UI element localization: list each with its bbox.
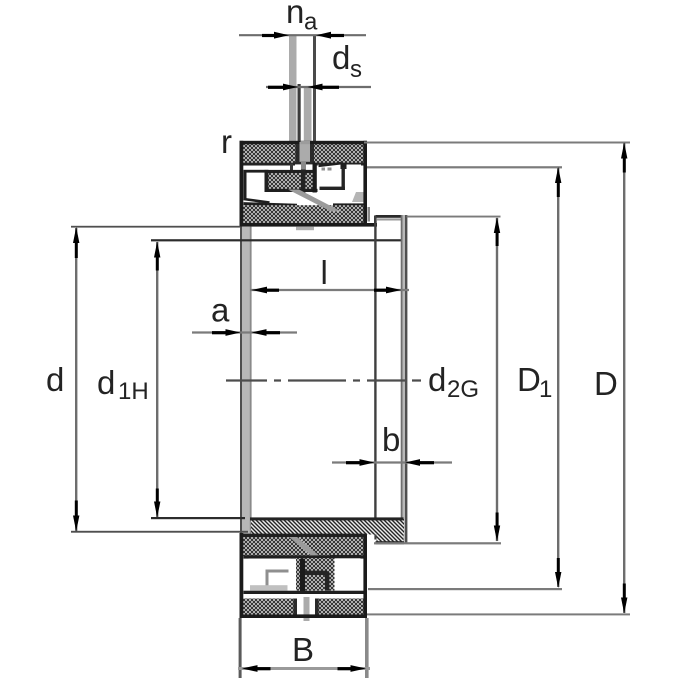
svg-text:d: d [428, 361, 446, 398]
sleeve protrusion bottom line [376, 541, 405, 544]
cage right vertical line (bottom) [325, 572, 330, 591]
cage mid horizontal line (bottom) [305, 571, 327, 576]
a left arrow [226, 329, 241, 336]
extension D bottom [367, 613, 630, 615]
outer ring top edge [240, 141, 368, 144]
cage center oil passage dark line [301, 170, 306, 193]
left roller end-face gray lines [266, 570, 289, 573]
block right edge (top section) [363, 141, 367, 225]
outer ring hatched (top) [242, 143, 364, 165]
step white notch [367, 535, 374, 543]
left roller top edge [244, 170, 269, 173]
outer ring hatched (bottom) [242, 599, 364, 616]
svg-text:s: s [350, 56, 362, 83]
d2G top arrow [494, 217, 500, 233]
bottom outer ring bottom edge [240, 614, 368, 618]
extension line d bottom [71, 531, 248, 533]
inner ring band hatched (bottom) [242, 537, 364, 556]
oil groove white slot [295, 164, 315, 170]
svg-text:n: n [286, 0, 304, 30]
extension D1 bottom [368, 588, 562, 590]
right roller end-face horizontal line [320, 187, 345, 190]
raceway white strip [244, 166, 364, 171]
dimension D line [623, 143, 625, 613]
extension D top [364, 142, 630, 144]
inner duct gray strip [304, 87, 312, 142]
sleeve band hatched (bottom) [251, 519, 404, 535]
B right arrow [351, 665, 367, 672]
svg-text:d: d [97, 364, 115, 401]
left roller white body (bottom) [249, 559, 291, 591]
duct wall dark line right [313, 36, 316, 142]
right roller white body (bottom) [335, 558, 361, 592]
sleeve slit gray swath [288, 190, 342, 212]
cage top edge [265, 170, 317, 173]
oil hole white slot (bottom) [297, 597, 315, 615]
dimension d line [75, 228, 77, 531]
svg-text:r: r [221, 123, 232, 160]
b right arrow [405, 459, 420, 466]
inner ring band hatched (top) [242, 205, 364, 223]
sleeve left bore edge line [250, 227, 252, 534]
cage left edge [265, 170, 269, 192]
svg-text:d: d [46, 361, 64, 398]
roller seat line (bottom) [244, 555, 365, 558]
bearing block bottom edge [240, 223, 378, 227]
svg-text:a: a [211, 292, 230, 329]
oil hole right dark edge (bottom) [315, 599, 319, 615]
oil hole right dark edge [310, 144, 314, 163]
gray stub under bore line [296, 227, 314, 231]
svg-text:D: D [594, 365, 618, 402]
dimension d2G line [496, 218, 498, 541]
sleeve right end face: dark edge [405, 215, 407, 543]
dimension n_a line [239, 34, 366, 36]
groove white strip (bottom) [244, 594, 364, 599]
D bottom arrow [621, 598, 627, 614]
svg-text:d: d [332, 39, 350, 76]
sleeve bore line / extension d1H bottom [151, 517, 245, 519]
band top edge (roller seat) right segment [333, 203, 364, 206]
l left arrow [252, 287, 268, 294]
D1 bottom arrow [555, 572, 561, 588]
sleeve right end face: left edge [401, 215, 403, 543]
svg-text:a: a [304, 9, 318, 36]
right roller top edge (bottom) [330, 555, 361, 558]
cage segment hatched (bottom) [296, 558, 335, 591]
oil hole through outer ring: gray fill [300, 142, 311, 162]
dimension d1H line [156, 242, 158, 517]
a right arrow [252, 329, 267, 336]
oil passage gray streak in groove [301, 162, 306, 170]
sleeve bore line / extension d1H top [151, 239, 404, 241]
roller bottom line [244, 591, 365, 594]
oil hole left dark edge [296, 144, 300, 163]
dimension d_s line [266, 86, 371, 88]
svg-text:B: B [292, 631, 314, 668]
svg-text:b: b [382, 421, 400, 458]
B left arrow [242, 665, 258, 672]
cage segment hatched between rollers [266, 171, 313, 193]
sleeve left end face gray fill [242, 227, 250, 534]
B right extension line [365, 618, 369, 678]
thread root gray line [377, 218, 402, 220]
sleeve left end face: dark edge [240, 227, 242, 534]
svg-text:D: D [517, 361, 541, 398]
sleeve protrusion top line [376, 215, 407, 218]
groove top dark line [295, 162, 315, 165]
sleeve right end face: gray fill [403, 215, 406, 543]
thread boundary line (b left reference) [374, 216, 376, 540]
d bottom arrow [73, 516, 79, 532]
svg-text:1H: 1H [118, 378, 149, 405]
sleeve protrusion hatched (bottom right) [377, 519, 404, 543]
d1H top arrow [154, 242, 160, 258]
block left edge (top section) [240, 141, 244, 227]
block left edge (bottom section) [240, 533, 244, 618]
right roller corner blob [341, 163, 347, 170]
l right arrow [386, 287, 402, 294]
B left extension line [239, 618, 242, 678]
svg-text:l: l [321, 254, 328, 291]
duct wall gray strip left [289, 36, 297, 142]
d1H bottom arrow [154, 502, 160, 518]
central axis dash-dot line [226, 379, 421, 381]
sleeve step vertical edge [374, 216, 377, 226]
n_a left arrow [274, 32, 289, 39]
extension line d top [71, 226, 240, 228]
svg-text:1: 1 [539, 376, 552, 403]
left roller left edge [244, 170, 247, 200]
oil hole left dark edge (bottom) [294, 599, 298, 615]
d top arrow [73, 227, 79, 243]
cage bottom edge [265, 189, 318, 192]
right roller end-face vertical line [342, 167, 345, 190]
left roller white body [244, 170, 295, 204]
band top edge (roller seat) left segment [244, 204, 298, 206]
groove left dark tick [290, 164, 293, 173]
dimension l line [250, 289, 409, 291]
svg-text:2G: 2G [447, 376, 479, 403]
oil hole mouth gray gap in top edge [301, 141, 311, 144]
right roller top edge [319, 163, 342, 166]
d_s right arrow [308, 84, 323, 91]
D top arrow [621, 143, 627, 159]
extension d2G bottom [374, 542, 501, 544]
right roller lower white area [294, 193, 318, 205]
right roller white body [318, 165, 361, 205]
dimension a line [192, 331, 297, 333]
n_a right arrow [316, 32, 331, 39]
left roller lower-left slant edge [244, 199, 270, 203]
left roller gray shading (bottom) [250, 585, 288, 590]
D1 top arrow [555, 167, 561, 183]
dimension b line [332, 461, 452, 463]
cage dark left edge (bottom) [300, 559, 305, 592]
d2G bottom arrow [494, 526, 500, 542]
sleeve band top line [250, 517, 404, 520]
taper boundary line (bottom) [240, 534, 367, 537]
block right edge (bottom section) [363, 535, 367, 618]
dimension D1 line [557, 168, 559, 587]
extension d2G top [407, 216, 501, 218]
right roller gray shading [352, 192, 364, 202]
b left arrow [360, 459, 375, 466]
extension D1 top [367, 166, 562, 168]
inner duct dark line [298, 84, 301, 142]
outer ring bottom boundary [242, 163, 364, 166]
cage right dark edge [313, 163, 317, 193]
oil hole gray center line (bottom) [304, 597, 310, 621]
taper gray swath (bottom) [289, 537, 319, 556]
dimension B line [238, 667, 370, 670]
inner ring face gray line at step [368, 207, 371, 222]
d_s left arrow [283, 84, 298, 91]
roller face gray dashes [322, 168, 326, 171]
